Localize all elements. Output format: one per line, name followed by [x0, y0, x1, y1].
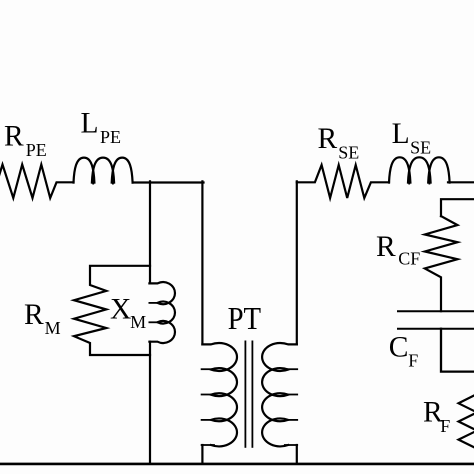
svg-text:F: F	[408, 350, 418, 370]
svg-text:R: R	[4, 120, 24, 152]
svg-text:M: M	[45, 318, 61, 338]
wire bottom rail	[0, 463, 474, 466]
svg-text:L: L	[81, 108, 99, 140]
capacitor C_F bottom plate	[398, 328, 474, 330]
svg-text:CF: CF	[398, 248, 420, 268]
transformer U1 primary winding	[202, 343, 237, 446]
transformer secondary tick 3	[285, 419, 297, 421]
transformer U1 secondary feed top	[296, 181, 298, 344]
label R_SE	[318, 123, 360, 163]
wire after L_SE	[448, 181, 474, 183]
capacitor C_F top plate	[398, 310, 474, 312]
transformer primary tick 2	[202, 394, 214, 396]
label C_F	[389, 331, 419, 370]
resistor R_F (clipped at right edge)	[459, 394, 474, 449]
inductor L_PE tick 1	[92, 170, 94, 184]
transformer primary tick 3	[202, 419, 214, 421]
transformer core line 2	[251, 341, 253, 447]
transformer secondary feed bottom	[296, 445, 298, 464]
label R_F	[423, 396, 450, 436]
inductor X_M tick 1	[149, 302, 160, 304]
svg-text:L: L	[392, 118, 410, 150]
transformer secondary tick 2	[285, 394, 297, 396]
svg-text:M: M	[130, 312, 146, 332]
svg-text:R: R	[24, 299, 44, 331]
resistor R_PE	[0, 165, 74, 199]
inductor L_SE tick 2	[428, 170, 430, 184]
transformer secondary bottom tick	[285, 444, 297, 446]
inductor L_SE	[389, 157, 450, 182]
inductor X_M tick 2	[149, 321, 160, 323]
svg-text:F: F	[440, 416, 450, 436]
svg-text:X: X	[110, 294, 131, 326]
svg-text:R: R	[376, 231, 396, 263]
svg-text:PT: PT	[228, 300, 262, 336]
resistor R_CF	[425, 216, 458, 311]
inductor X_M	[149, 282, 175, 343]
transformer U1 primary feed top	[201, 181, 203, 344]
transformer core line 1	[244, 341, 246, 447]
transformer primary bottom tick	[202, 444, 214, 446]
wire vertical main node at x=150 (upper)	[149, 181, 151, 283]
transformer primary tick 1	[202, 368, 214, 370]
wire vertical main node at x=150 (lower)	[149, 342, 151, 464]
svg-text:R: R	[318, 123, 338, 155]
transformer primary feed bottom	[201, 445, 203, 464]
resistor R_M with parallel bracket	[74, 266, 150, 355]
inductor L_PE tick 2	[112, 170, 114, 184]
label R_PE	[4, 120, 47, 160]
svg-text:PE: PE	[100, 127, 121, 147]
label L_PE	[81, 108, 122, 148]
wire top-left to transformer	[133, 181, 204, 183]
transformer secondary tick 1	[285, 368, 297, 370]
inductor L_SE tick 1	[408, 170, 410, 184]
label X_M	[110, 294, 146, 333]
label R_M	[24, 299, 61, 338]
inductor L_PE	[74, 158, 133, 183]
wire second rail right	[441, 199, 474, 216]
svg-text:SE: SE	[338, 143, 359, 163]
label R_CF	[376, 231, 420, 268]
svg-text:SE: SE	[410, 138, 431, 158]
label PT	[228, 300, 262, 336]
resistor R_SE with wires	[297, 165, 389, 198]
label L_SE	[392, 118, 432, 158]
wire capacitor to lower rail	[441, 329, 474, 372]
svg-text:C: C	[389, 331, 409, 363]
transformer U1 secondary winding	[262, 343, 297, 446]
svg-text:PE: PE	[26, 140, 47, 160]
